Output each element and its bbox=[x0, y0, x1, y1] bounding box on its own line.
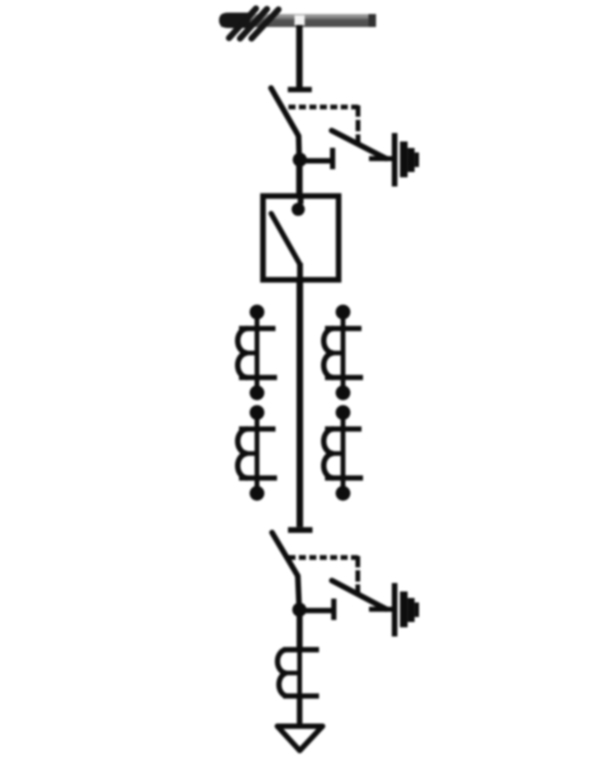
busbar right end cap bbox=[369, 14, 377, 27]
earthing switch ES1 fixed contact bbox=[299, 158, 331, 163]
disconnector QS2 fixed contact bar bbox=[288, 527, 313, 533]
earthing switch ES2 blade bbox=[332, 581, 386, 610]
wire: busbar down to disconnector QS1 bbox=[296, 25, 302, 88]
disconnector QS2 blade (open) bbox=[272, 533, 299, 611]
disconnector QS1 blade (open) bbox=[271, 88, 299, 160]
busbar tap node (white square) bbox=[295, 15, 305, 25]
interlock linkage (dashed) lower bbox=[289, 555, 359, 560]
earth symbol E2 bbox=[392, 583, 419, 637]
wire: breaker blade to box bottom bbox=[297, 263, 303, 282]
busbar hatch marks bbox=[229, 9, 279, 39]
breaker top contact stub bbox=[298, 196, 304, 204]
wire: reactor to cable termination bbox=[297, 696, 303, 724]
current transformer CT2 (lower left) bbox=[238, 405, 277, 501]
junction node A (dot) bbox=[293, 153, 307, 167]
cable termination arrow (open triangle) bbox=[277, 726, 322, 750]
earthing switch ES2 fixed contact bbox=[299, 608, 332, 613]
current transformer CT3 (upper right) bbox=[324, 305, 363, 401]
breaker blade (open) bbox=[271, 214, 300, 265]
wire: ES1 to earth electrode bbox=[369, 156, 392, 161]
wire: QS2 to reactor coil bbox=[297, 610, 303, 650]
earth symbol E1 bbox=[392, 133, 419, 187]
disconnector QS1 fixed contact bar bbox=[288, 87, 312, 92]
busbar left end cap bbox=[219, 13, 250, 28]
earthing switch ES1 blade bbox=[332, 131, 386, 159]
wire: feeder main line (breaker to lower disconnector) bbox=[296, 280, 303, 527]
wire: QS1 to circuit breaker Q1 bbox=[296, 160, 302, 196]
reactor coil L1 bbox=[278, 648, 320, 698]
circuit breaker Q1 (box) bbox=[263, 196, 339, 280]
breaker hinge dot bbox=[292, 203, 305, 216]
junction node B (dot) bbox=[292, 603, 306, 617]
interlock linkage (dashed) upper bbox=[289, 105, 359, 110]
current transformer CT4 (lower right) bbox=[324, 405, 363, 501]
current transformer CT1 (upper left) bbox=[238, 305, 277, 401]
wire: ES2 to earth electrode bbox=[369, 607, 392, 612]
